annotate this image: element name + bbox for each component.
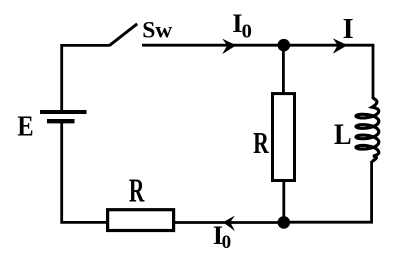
svg-text:I: I <box>343 14 354 45</box>
svg-text:Sw: Sw <box>142 18 172 44</box>
battery E short plate <box>47 119 75 123</box>
wire: switch right contact to top junction node <box>142 44 284 47</box>
svg-text:0: 0 <box>242 21 252 43</box>
junction node bottom <box>278 216 291 229</box>
wire: bottom middle segment, resistor to bottom junction node <box>174 221 284 224</box>
junction node top <box>278 39 291 52</box>
battery E long plate <box>40 110 87 114</box>
svg-text:E: E <box>17 111 33 142</box>
wire: middle branch upper, top node to resistor R1 <box>282 45 285 93</box>
resistor R1 (vertical) <box>273 94 295 181</box>
svg-text:R: R <box>253 125 269 160</box>
arrow I0 on top wire <box>222 39 236 55</box>
svg-text:0: 0 <box>222 232 232 250</box>
resistor R2 (bottom) <box>108 210 174 231</box>
wire: top junction to top-right corner down to inductor top <box>284 45 373 99</box>
switch Sw blade <box>109 24 137 46</box>
wire: middle branch lower, resistor R1 to bottom node <box>282 181 285 223</box>
svg-text:R: R <box>129 173 145 210</box>
arrow I0 on bottom wire (pointing left) <box>223 216 235 232</box>
wire: left vertical lower, battery to bottom-left corner, to resistor <box>62 123 108 222</box>
wire: top-left segment from corner to switch left contact <box>62 45 109 110</box>
arrow I on top-right wire <box>333 38 348 54</box>
wire: bottom junction to bottom-right corner up to inductor bottom <box>284 161 372 222</box>
svg-text:L: L <box>334 119 352 152</box>
inductor L coil <box>356 98 379 161</box>
